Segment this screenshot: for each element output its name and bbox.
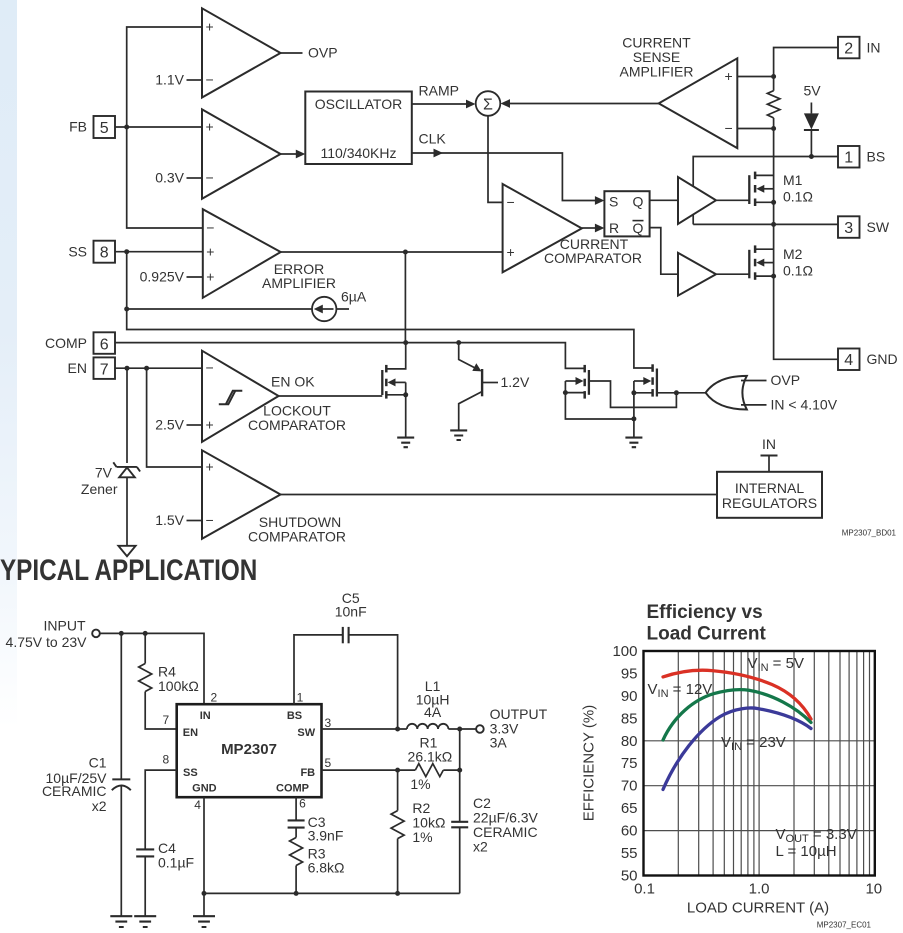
svg-text:0.1Ω: 0.1Ω	[783, 189, 813, 205]
svg-text:1.0: 1.0	[749, 881, 770, 898]
block internal regulators	[717, 472, 822, 518]
label VIN = 23V	[721, 734, 786, 753]
svg-text:−: −	[206, 220, 214, 236]
svg-text:AMPLIFIER: AMPLIFIER	[620, 63, 694, 79]
op-amp lockout comparator	[202, 351, 346, 442]
svg-text:6: 6	[299, 797, 306, 811]
value label 2.5V	[155, 417, 202, 433]
svg-text:5V: 5V	[803, 83, 821, 99]
svg-text:x2: x2	[473, 839, 488, 855]
svg-text:EFFICIENCY (%): EFFICIENCY (%)	[581, 705, 598, 821]
node IN terminal of internal regulators	[761, 436, 778, 472]
pin FB 5	[69, 116, 115, 138]
svg-text:6.8kΩ: 6.8kΩ	[308, 859, 345, 875]
op-amp OVP comparator	[202, 8, 281, 97]
svg-text:IN: IN	[867, 40, 881, 56]
pin 2 IN	[838, 37, 881, 59]
node IN lt 4.10V input label	[771, 397, 838, 413]
svg-text:+: +	[206, 19, 214, 35]
value label 1.5V	[155, 512, 202, 528]
wire latch Qbar output to low side driver	[650, 228, 678, 275]
chart axes frame	[644, 651, 875, 876]
svg-text:4: 4	[844, 352, 853, 369]
svg-text:6µA: 6µA	[341, 289, 367, 305]
node OUTPUT terminal	[476, 706, 547, 750]
svg-text:EN: EN	[183, 727, 198, 739]
svg-text:VIN = 5V: VIN = 5V	[748, 655, 804, 674]
pin number labels of MP2307	[163, 691, 332, 812]
transistor M1 high side MOSFET	[749, 172, 813, 206]
svg-text:IN: IN	[200, 710, 211, 722]
op-amp current comparator	[503, 184, 642, 272]
svg-text:BS: BS	[287, 710, 302, 722]
svg-text:5: 5	[325, 756, 332, 770]
svg-text:EN: EN	[68, 360, 87, 376]
node COMP junction at 1.2V clamp	[456, 340, 461, 345]
svg-text:VIN = 12V: VIN = 12V	[648, 681, 713, 700]
wire OVP output	[281, 52, 303, 54]
svg-text:7: 7	[163, 713, 170, 727]
wire COMP pin down	[295, 797, 297, 820]
svg-text:C1: C1	[89, 755, 107, 771]
node OVP label	[308, 45, 338, 61]
chart gridlines	[644, 651, 875, 876]
svg-text:+: +	[507, 244, 515, 260]
label MP2307_BD01	[842, 529, 897, 538]
svg-text:CERAMIC: CERAMIC	[42, 783, 107, 799]
wire current comparator output to latch R input	[582, 224, 605, 233]
svg-text:COMPARATOR: COMPARATOR	[248, 528, 346, 544]
capacitor C3	[288, 814, 344, 843]
svg-text:IN: IN	[762, 436, 776, 452]
latch S R flip-flop	[604, 191, 649, 236]
svg-text:Efficiency vs: Efficiency vs	[647, 602, 763, 623]
svg-text:1.1V: 1.1V	[155, 72, 184, 88]
wire FB line to divider	[322, 768, 416, 773]
wire output node down through C2	[457, 729, 462, 821]
svg-text:M2: M2	[783, 246, 803, 262]
wire IN pin to internal rail	[774, 48, 838, 91]
svg-text:GND: GND	[192, 783, 217, 795]
svg-text:COMP: COMP	[45, 335, 87, 351]
diode 5V zener to BS	[803, 83, 821, 157]
label VOUT = 3.3V	[776, 826, 857, 845]
wire SW to inductor	[322, 727, 407, 732]
node BS diode junction dot	[809, 154, 814, 159]
pin 3 SW	[838, 216, 890, 238]
svg-text:55: 55	[621, 845, 638, 862]
svg-text:REGULATORS: REGULATORS	[722, 495, 817, 511]
pin SS 8	[68, 241, 115, 263]
wire current sense output into sigma	[501, 99, 659, 108]
label L = 10uH	[776, 843, 837, 860]
svg-text:−: −	[725, 120, 733, 136]
svg-text:6: 6	[100, 336, 109, 353]
svg-text:SW: SW	[297, 727, 315, 739]
wire EN OK lockout output to switch gate	[271, 374, 382, 396]
svg-text:COMPARATOR: COMPARATOR	[544, 250, 642, 266]
svg-text:BS: BS	[867, 149, 886, 165]
svg-text:FB: FB	[69, 119, 87, 135]
resistor R1	[408, 734, 460, 792]
svg-text:−: −	[507, 194, 515, 210]
transistor COMP discharge MOSFET	[563, 365, 677, 419]
pin COMP 6	[45, 332, 115, 354]
svg-text:0.1µF: 0.1µF	[158, 854, 194, 870]
buffer low side driver	[678, 253, 716, 296]
svg-text:80: 80	[621, 733, 638, 750]
gate OR for OVP and UVLO	[657, 376, 767, 410]
value label 1.1V	[155, 72, 202, 88]
inductor L1	[407, 678, 450, 729]
op-amp shutdown comparator	[202, 450, 346, 544]
svg-text:S: S	[609, 194, 618, 210]
resistor sense resistor on rail	[767, 91, 780, 118]
svg-text:−: −	[206, 72, 214, 88]
svg-text:95: 95	[621, 666, 638, 683]
svg-text:VIN = 23V: VIN = 23V	[721, 734, 786, 753]
wire CLK output to latch S input	[412, 131, 605, 205]
svg-text:CLK: CLK	[419, 131, 447, 147]
value label 0.3V	[155, 170, 202, 186]
transistor 1.2V clamp	[459, 343, 530, 431]
svg-text:IN < 4.10V: IN < 4.10V	[771, 397, 838, 413]
wire RAMP output	[412, 83, 476, 109]
ground below discharge MOSFETs	[625, 438, 642, 448]
svg-text:MP2307_EC01: MP2307_EC01	[817, 921, 872, 930]
svg-text:+: +	[206, 459, 214, 475]
svg-text:Zener: Zener	[81, 481, 118, 497]
svg-text:4: 4	[194, 798, 201, 812]
svg-text:−: −	[206, 170, 214, 186]
svg-text:OVP: OVP	[308, 45, 338, 61]
wire internal rail IN to GND	[774, 118, 838, 359]
svg-text:0.3V: 0.3V	[155, 170, 184, 186]
svg-text:+: +	[206, 417, 214, 433]
ground arrow below zener	[118, 546, 135, 556]
node 6uA junction dot on SS bus	[124, 307, 129, 312]
wire error amp output down to COMP line	[404, 252, 406, 343]
svg-text:MP2307_BD01: MP2307_BD01	[842, 529, 897, 538]
svg-text:SS: SS	[68, 243, 87, 259]
svg-text:5: 5	[100, 120, 109, 137]
svg-text:INTERNAL: INTERNAL	[735, 480, 804, 496]
svg-text:+: +	[206, 244, 214, 260]
summing node sigma	[476, 91, 501, 116]
capacitor C5 bootstrap	[294, 590, 398, 729]
value label 0.925V	[140, 269, 203, 285]
svg-text:RAMP: RAMP	[419, 83, 459, 99]
node FB junction dot	[124, 125, 129, 130]
svg-text:R: R	[609, 220, 619, 236]
node SS junction dot	[124, 249, 129, 254]
svg-text:1.2V: 1.2V	[501, 374, 530, 390]
svg-text:1.5V: 1.5V	[155, 512, 184, 528]
wire FB comparator output to oscillator	[281, 150, 306, 159]
wire SS bus down and across to discharge MOSFET	[127, 252, 653, 368]
resistor R3	[290, 838, 345, 894]
wire sigma to current comparator - input	[488, 116, 503, 203]
capacitor C4	[136, 840, 194, 916]
chart title Efficiency vs Load Current	[647, 602, 767, 645]
svg-text:FB: FB	[300, 767, 315, 779]
svg-text:0.1Ω: 0.1Ω	[783, 263, 813, 279]
svg-text:AMPLIFIER: AMPLIFIER	[262, 275, 336, 291]
capacitor C2 output	[451, 795, 538, 893]
svg-text:7: 7	[100, 361, 109, 378]
svg-text:65: 65	[621, 800, 638, 817]
ground below C4	[134, 916, 156, 927]
wire current sense + input to rail	[737, 74, 776, 79]
svg-text:85: 85	[621, 710, 638, 727]
svg-text:8: 8	[163, 752, 170, 766]
svg-text:OSCILLATOR: OSCILLATOR	[315, 96, 402, 112]
ground below EN OK switch	[397, 438, 414, 448]
IC MP2307	[177, 704, 322, 797]
svg-text:Q: Q	[633, 194, 644, 210]
transistor EN OK discharge switch	[382, 343, 408, 438]
svg-text:L = 10µH: L = 10µH	[776, 843, 837, 860]
curve VIN 12V green	[663, 690, 811, 740]
wire GND pin down to ground	[202, 797, 207, 916]
wire shutdown output to internal regulators	[281, 494, 718, 496]
wire error amplifier output to current comparator + input	[281, 251, 503, 253]
wire bottom return rail	[204, 891, 460, 896]
wire input rail to IN pin	[100, 631, 204, 704]
op-amp error amplifier	[203, 209, 336, 298]
svg-text:TYPICAL APPLICATION: TYPICAL APPLICATION	[0, 554, 257, 587]
wire driver to M2 gate	[716, 273, 749, 275]
svg-text:1%: 1%	[410, 776, 430, 792]
node COMP junction at EN OK switch	[403, 340, 408, 345]
svg-text:Q: Q	[633, 220, 644, 236]
svg-text:+: +	[206, 269, 214, 285]
ground below 1.2V clamp	[450, 430, 467, 440]
wire EN pin to lockout comparator	[115, 366, 202, 371]
svg-text:R4: R4	[158, 663, 176, 679]
svg-text:0.925V: 0.925V	[140, 269, 185, 285]
svg-text:Load Current: Load Current	[647, 624, 767, 645]
buffer high side driver	[678, 177, 716, 224]
chart y axis title EFFICIENCY	[581, 705, 598, 821]
svg-text:10nF: 10nF	[335, 603, 367, 619]
node INPUT terminal	[6, 617, 100, 650]
op-amp current sense amplifier	[620, 35, 738, 148]
svg-text:60: 60	[621, 823, 638, 840]
svg-text:+: +	[725, 68, 733, 84]
curve VIN 23V blue	[663, 708, 811, 790]
chart x axis labels	[634, 881, 882, 898]
oscillator block	[305, 92, 412, 165]
op-amp FB comparator	[202, 109, 281, 198]
svg-text:SW: SW	[867, 219, 890, 235]
svg-text:110/340KHz: 110/340KHz	[320, 145, 396, 161]
wire BS pin line with driver supply branch	[693, 157, 838, 225]
label VIN = 5V	[748, 655, 804, 674]
chart x axis title LOAD CURRENT	[687, 900, 829, 917]
svg-text:90: 90	[621, 688, 638, 705]
wire driver to M1 gate	[716, 199, 749, 201]
svg-text:OVP: OVP	[771, 372, 801, 388]
svg-text:x2: x2	[92, 798, 107, 814]
svg-text:GND: GND	[867, 351, 898, 367]
svg-text:0.1: 0.1	[634, 881, 655, 898]
svg-text:3: 3	[844, 220, 853, 237]
svg-text:COMP: COMP	[276, 783, 309, 795]
svg-text:100kΩ: 100kΩ	[158, 678, 199, 694]
svg-text:OUTPUT: OUTPUT	[490, 706, 548, 722]
svg-text:7V: 7V	[95, 465, 113, 481]
capacitor C1 input	[42, 633, 131, 916]
svg-text:+: +	[206, 119, 214, 135]
svg-text:4A: 4A	[424, 704, 442, 720]
svg-text:2: 2	[211, 691, 218, 705]
wire EN to shutdown comparator + input	[147, 368, 202, 467]
svg-text:1: 1	[297, 691, 304, 705]
label MP2307_EC01	[817, 921, 872, 930]
svg-text:100: 100	[612, 643, 637, 660]
svg-text:M1: M1	[783, 172, 803, 188]
label VIN = 12V	[648, 681, 713, 700]
svg-text:3.9nF: 3.9nF	[308, 827, 344, 843]
pin EN 7	[68, 357, 115, 379]
resistor R2	[391, 770, 445, 893]
svg-text:10: 10	[865, 881, 882, 898]
wire SS pin to C4	[145, 770, 177, 849]
node OVP input label	[771, 372, 801, 388]
svg-text:Σ: Σ	[483, 97, 493, 114]
ground below C1	[110, 916, 132, 927]
node error amp output junction	[403, 250, 408, 255]
svg-text:−: −	[206, 512, 214, 528]
wire FB pin to comparator	[115, 126, 202, 128]
wire latch Q output to high side driver	[650, 199, 678, 201]
svg-text:70: 70	[621, 778, 638, 795]
svg-text:COMPARATOR: COMPARATOR	[248, 417, 346, 433]
svg-text:3: 3	[325, 716, 332, 730]
svg-text:4.75V to 23V: 4.75V to 23V	[6, 634, 88, 650]
transistor SS discharge MOSFET	[631, 364, 657, 437]
svg-text:LOAD CURRENT (A): LOAD CURRENT (A)	[687, 900, 829, 917]
svg-text:1%: 1%	[412, 829, 432, 845]
svg-text:2.5V: 2.5V	[155, 417, 184, 433]
diode 7V zener on EN	[81, 368, 140, 546]
svg-text:−: −	[206, 360, 214, 376]
wire SS pin to error amp + input	[115, 251, 203, 253]
current source 6uA	[127, 289, 367, 321]
heading TYPICAL APPLICATION	[0, 554, 257, 587]
svg-text:3A: 3A	[490, 734, 508, 750]
ground below GND pin	[193, 916, 215, 927]
svg-text:SS: SS	[183, 767, 198, 779]
wire current sense - input to rail	[737, 126, 776, 131]
wire SW pin line	[693, 222, 838, 227]
chart y axis labels	[612, 643, 637, 885]
transistor M2 low side MOSFET	[749, 245, 813, 279]
curve VIN 5V red	[663, 670, 811, 719]
wire FB bus to OVP + input and error amp - input	[127, 27, 203, 228]
svg-text:75: 75	[621, 755, 638, 772]
svg-text:INPUT: INPUT	[44, 617, 86, 633]
svg-text:8: 8	[100, 245, 109, 262]
resistor R4	[139, 633, 199, 729]
wire COMP line to discharge MOSFET	[115, 343, 585, 369]
pin 1 BS	[838, 146, 885, 168]
wire inductor to output terminal	[448, 727, 476, 732]
svg-text:EN OK: EN OK	[271, 374, 315, 390]
svg-text:26.1kΩ: 26.1kΩ	[408, 748, 453, 764]
pin 4 GND	[838, 349, 898, 371]
svg-text:1: 1	[844, 150, 853, 167]
svg-text:MP2307: MP2307	[221, 741, 277, 758]
svg-text:2: 2	[844, 40, 853, 57]
